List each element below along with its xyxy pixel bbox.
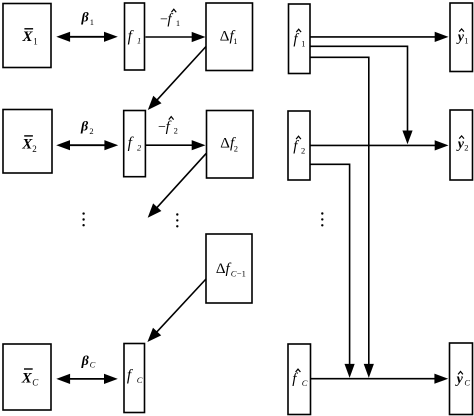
arrow f2 to Delta f2 [146,140,206,150]
box y1hat [450,3,473,72]
svg-text:X: X [22,29,34,45]
box Delta f1 [206,3,253,71]
diagonal arrow Delta fC-1 to fC [147,279,206,342]
box yChat [450,343,473,415]
svg-text:1: 1 [233,36,237,46]
double arrow beta2 [56,140,118,150]
box Delta f2 [207,111,254,179]
box f1 [125,3,145,70]
wire f1hat tap down to row2 [310,46,413,144]
box fC [124,344,145,413]
dots column right [321,212,323,226]
double arrow beta1 [56,32,118,42]
diagonal arrow Delta f2 down-left [148,153,207,217]
box y2hat [450,110,473,180]
box fChat [288,344,311,415]
dots column middle [176,213,178,227]
label beta2 [80,120,94,136]
svg-text:1: 1 [137,36,141,46]
svg-text:1: 1 [464,36,468,46]
svg-text:2: 2 [89,126,93,136]
arrow f2hat to y2hat [310,140,449,150]
svg-text:1: 1 [301,39,305,49]
box f2 [124,111,146,177]
svg-text:C: C [137,375,143,385]
label minus f2hat [157,117,178,136]
svg-text:2: 2 [464,143,468,153]
svg-text:β: β [80,120,89,135]
box X2bar [3,110,52,174]
label beta1 [81,10,94,27]
svg-text:C: C [464,377,470,387]
box X1bar [3,4,51,68]
svg-text:C: C [32,377,39,387]
double arrow betaC [56,374,118,384]
box XCbar [3,344,51,410]
arrow fChat to yChat [311,374,448,384]
svg-text:β: β [81,354,90,369]
wire f2hat tap down to bottom row [310,164,355,378]
arrow f1 to Delta f1 [146,32,206,42]
svg-text:2: 2 [301,146,305,156]
svg-text:1: 1 [90,17,94,27]
svg-text:C: C [302,378,308,388]
box Delta fC-1 [206,234,252,303]
svg-text:β: β [81,10,90,25]
svg-text:1: 1 [33,37,38,47]
label minus f1hat [159,9,180,28]
svg-text:X: X [21,370,33,386]
svg-text:Δf: Δf [216,261,232,277]
svg-text:2: 2 [234,143,238,153]
svg-text:2: 2 [174,126,178,136]
box f1hat [289,4,311,74]
svg-text:C: C [90,360,96,370]
dots column left [82,212,84,226]
svg-text:1: 1 [176,18,180,28]
box f2hat [288,111,310,180]
arrow f1hat to y1hat [310,32,449,42]
svg-text:C: C [231,269,237,279]
wire f1hat tap down to bottom row [310,57,374,378]
label betaC [81,354,96,370]
diagonal arrow Delta f1 to f2 [148,47,206,111]
svg-text:−1: −1 [237,269,246,279]
svg-text:2: 2 [32,144,37,154]
